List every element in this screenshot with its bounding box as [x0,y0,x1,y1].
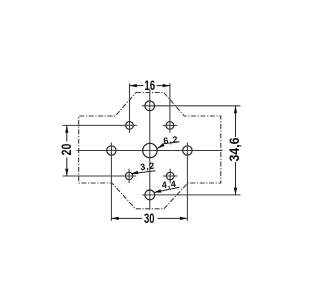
vertical centerline [149,90,151,210]
svg-text:34,6: 34,6 [226,137,242,161]
svg-text:20: 20 [59,144,75,156]
hole C7 upper-right Ø3.2 [163,83,178,133]
hole C6 upper-left Ø3.2 [63,83,137,133]
hole C1 center Ø6.2 [143,143,157,157]
hole C3 bottom Ø4.4 [142,190,241,200]
hole C4 mid-left [107,143,116,221]
svg-text:30: 30 [144,210,155,227]
horizontal centerline [77,150,223,152]
svg-text:4,4: 4,4 [161,179,177,191]
hole C2 top Ø4.4 [142,101,241,111]
dimension 30 bottom [111,210,187,227]
svg-text:6,2: 6,2 [163,134,179,146]
svg-text:3,2: 3,2 [140,161,156,173]
plate outline [79,93,221,209]
hole C5 mid-right [183,143,192,221]
hole C9 lower-right Ø3.2 [163,169,177,183]
leader label 6,2 [157,134,179,148]
dimension 16 top [130,77,170,93]
dimension 20 left [59,125,75,176]
leader label 4,4 [154,179,179,193]
leader label 3,2 [131,161,156,175]
svg-text:16: 16 [144,77,155,93]
dimension 34,6 right [226,106,242,195]
hole C8 lower-left Ø3.2 [63,169,137,183]
